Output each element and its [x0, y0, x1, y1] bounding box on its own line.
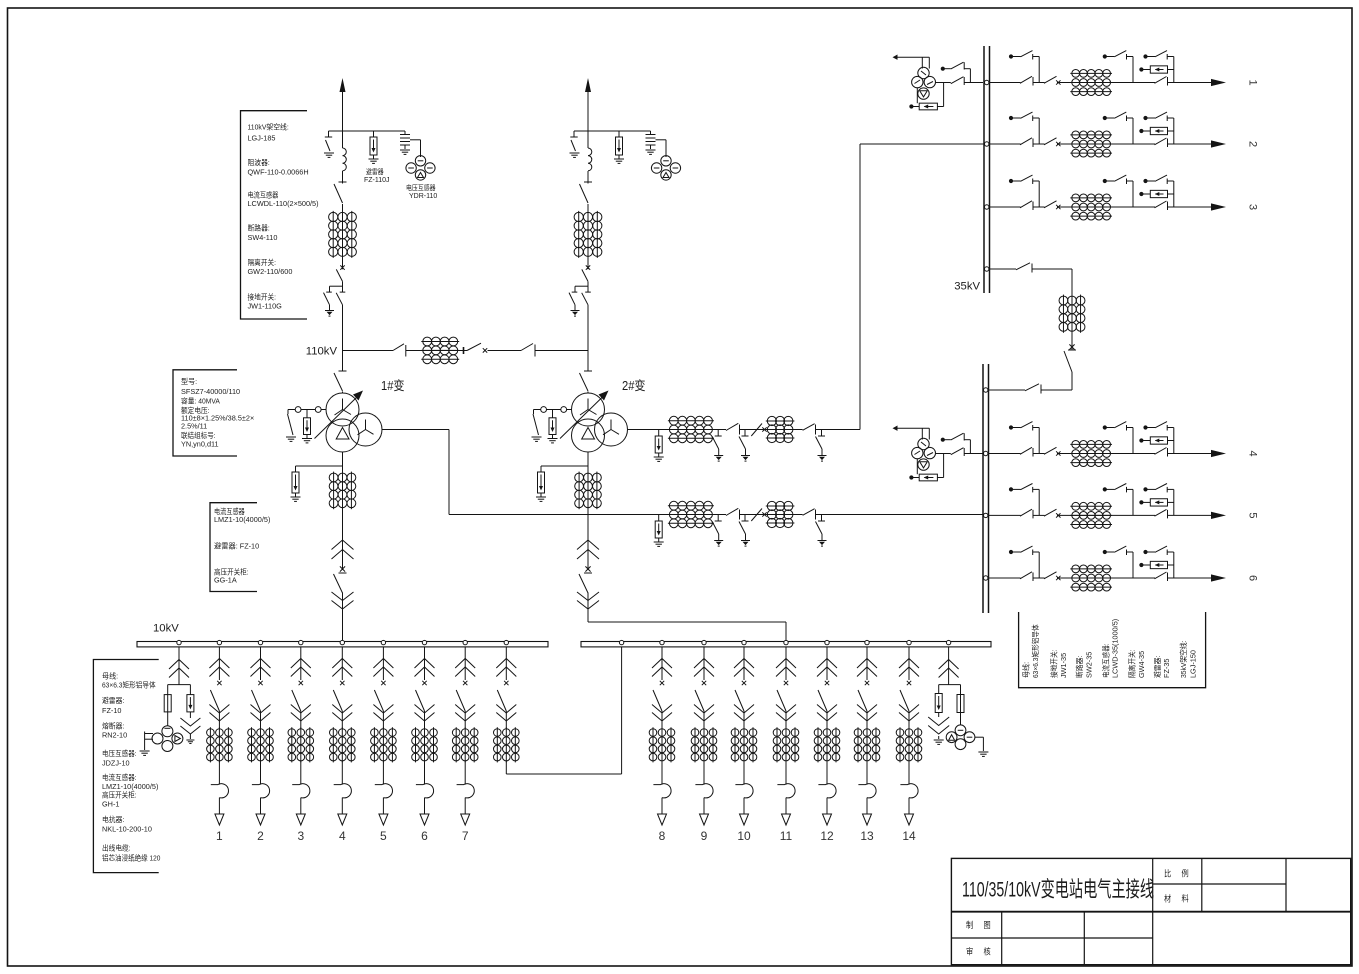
svg-text:断路器:: 断路器: [248, 223, 270, 232]
svg-text:1#变: 1#变 [381, 378, 405, 393]
svg-text:13: 13 [860, 829, 874, 843]
svg-text:审: 审 [966, 947, 973, 957]
svg-text:LCWD-35(1000/5): LCWD-35(1000/5) [1111, 619, 1120, 678]
svg-text:14: 14 [902, 829, 916, 843]
svg-text:FZ-35: FZ-35 [1162, 659, 1171, 678]
svg-text:GH-1: GH-1 [102, 800, 119, 809]
svg-text:NKL-10-200-10: NKL-10-200-10 [102, 824, 152, 833]
svg-text:出线电缆:: 出线电缆: [102, 844, 131, 853]
svg-text:10kV: 10kV [153, 623, 179, 635]
svg-text:35kV架空线:: 35kV架空线: [1179, 641, 1188, 679]
svg-text:3: 3 [297, 829, 304, 843]
svg-text:6: 6 [421, 829, 428, 843]
svg-text:材: 材 [1164, 894, 1172, 904]
svg-text:核: 核 [984, 947, 992, 957]
svg-text:FZ-110J: FZ-110J [364, 177, 390, 184]
svg-text:1: 1 [1247, 79, 1259, 85]
svg-text:LMZ1-10(4000/5): LMZ1-10(4000/5) [214, 515, 270, 524]
svg-text:型号:: 型号: [181, 377, 197, 386]
svg-text:电流互感器:: 电流互感器: [1101, 643, 1110, 678]
svg-text:9: 9 [701, 829, 708, 843]
svg-text:YDR-110: YDR-110 [409, 193, 437, 200]
svg-text:4: 4 [339, 829, 346, 843]
svg-text:熔断器:: 熔断器: [102, 721, 124, 730]
svg-text:4: 4 [1247, 450, 1259, 456]
svg-text:110/35/10kV变电站电气主接线: 110/35/10kV变电站电气主接线 [962, 878, 1154, 902]
svg-text:电流互感器:: 电流互感器: [102, 773, 137, 782]
svg-text:YN,yn0,d11: YN,yn0,d11 [181, 440, 219, 449]
svg-text:JW1-35: JW1-35 [1059, 653, 1068, 678]
svg-text:2: 2 [257, 829, 264, 843]
svg-text:110kV: 110kV [306, 346, 338, 358]
svg-text:电压互感器:: 电压互感器: [102, 749, 137, 758]
svg-text:避雷器:: 避雷器: [102, 696, 124, 705]
svg-text:JW1-110G: JW1-110G [248, 301, 283, 310]
svg-text:阻波器:: 阻波器: [248, 158, 270, 167]
svg-text:比: 比 [1164, 869, 1171, 879]
svg-text:10: 10 [737, 829, 751, 843]
svg-text:QWF-110-0.0066H: QWF-110-0.0066H [248, 167, 309, 176]
svg-text:8: 8 [659, 829, 666, 843]
svg-text:63×6.3矩形铝导体: 63×6.3矩形铝导体 [1031, 624, 1040, 678]
svg-text:11: 11 [780, 829, 793, 843]
svg-text:GW2-110/600: GW2-110/600 [248, 267, 293, 276]
svg-text:GW4-35: GW4-35 [1137, 651, 1146, 678]
svg-text:LCWDL-110(2×500/5): LCWDL-110(2×500/5) [248, 199, 319, 208]
svg-text:高压开关柜:: 高压开关柜: [102, 791, 137, 800]
svg-text:JDZJ-10: JDZJ-10 [102, 758, 130, 767]
svg-text:例: 例 [1182, 869, 1189, 879]
svg-text:6: 6 [1247, 575, 1259, 581]
svg-text:1: 1 [216, 829, 223, 843]
svg-text:FZ-10: FZ-10 [102, 706, 121, 715]
svg-text:避雷器:: 避雷器: [1153, 656, 1162, 678]
svg-text:铝芯油浸纸绝缘 120: 铝芯油浸纸绝缘 120 [102, 853, 160, 862]
svg-text:母线:: 母线: [1022, 662, 1031, 678]
svg-text:SFSZ7-40000/110: SFSZ7-40000/110 [181, 387, 240, 396]
svg-text:LGJ-150: LGJ-150 [1188, 650, 1197, 678]
svg-text:电抗器:: 电抗器: [102, 815, 124, 824]
svg-text:图: 图 [984, 920, 991, 930]
svg-text:35kV: 35kV [954, 281, 980, 293]
svg-text:RN2-10: RN2-10 [102, 731, 127, 740]
svg-text:避雷器: 避雷器 [366, 167, 384, 176]
svg-text:2: 2 [1247, 141, 1259, 147]
svg-text:接地开关:: 接地开关: [248, 292, 277, 301]
svg-text:2.5%/11: 2.5%/11 [181, 422, 207, 431]
svg-text:制: 制 [966, 920, 973, 930]
svg-text:63×6.3矩形铝导体: 63×6.3矩形铝导体 [102, 681, 156, 690]
svg-text:110kV架空线:: 110kV架空线: [248, 123, 289, 132]
svg-text:2#变: 2#变 [622, 378, 646, 393]
svg-text:料: 料 [1182, 894, 1190, 904]
svg-text:SW4-110: SW4-110 [248, 233, 278, 242]
svg-text:电压互感器: 电压互感器 [406, 183, 436, 192]
svg-text:LGJ-185: LGJ-185 [248, 133, 276, 142]
svg-text:避雷器: FZ-10: 避雷器: FZ-10 [214, 541, 259, 550]
svg-text:电流互感器: 电流互感器 [248, 190, 279, 199]
svg-text:7: 7 [462, 829, 469, 843]
svg-text:5: 5 [380, 829, 387, 843]
svg-text:12: 12 [820, 829, 834, 843]
svg-text:隔离开关:: 隔离开关: [1128, 650, 1137, 679]
svg-text:母线:: 母线: [102, 672, 118, 681]
svg-text:GG-1A: GG-1A [214, 576, 237, 585]
svg-text:SW2-35: SW2-35 [1084, 652, 1093, 678]
svg-text:容量: 40MVA: 容量: 40MVA [181, 397, 220, 406]
svg-text:隔离开关:: 隔离开关: [248, 258, 277, 267]
svg-text:断路器:: 断路器: [1075, 656, 1084, 678]
svg-text:3: 3 [1247, 204, 1259, 210]
svg-text:联结组标号:: 联结组标号: [181, 431, 216, 440]
svg-text:接地开关:: 接地开关: [1050, 650, 1059, 679]
svg-text:5: 5 [1247, 512, 1259, 518]
